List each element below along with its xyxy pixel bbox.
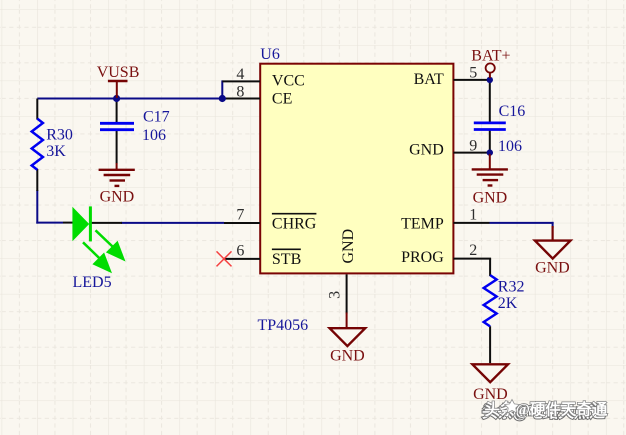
svg-text:TEMP: TEMP [401,216,444,233]
svg-text:BAT: BAT [414,71,444,88]
svg-text:3K: 3K [46,143,66,160]
svg-text:4: 4 [236,66,244,83]
svg-text:2: 2 [469,242,477,259]
svg-text:头条@硬件天奇通: 头条@硬件天奇通 [485,400,608,419]
svg-text:GND: GND [100,188,135,205]
svg-text:8: 8 [236,83,244,100]
svg-text:GND: GND [473,189,508,206]
svg-text:R30: R30 [46,126,73,143]
svg-text:5: 5 [469,65,477,82]
svg-text:C16: C16 [499,103,526,120]
svg-text:C17: C17 [143,109,170,126]
svg-text:GND: GND [473,386,508,403]
svg-text:VCC: VCC [272,72,305,89]
svg-text:106: 106 [142,127,166,144]
svg-text:7: 7 [236,207,244,224]
svg-text:CE: CE [272,90,292,107]
svg-text:106: 106 [498,138,522,155]
svg-text:1: 1 [469,207,477,224]
svg-text:CHRG: CHRG [272,216,317,233]
svg-text:TP4056: TP4056 [258,317,309,334]
svg-text:BAT+: BAT+ [471,47,510,64]
svg-text:STB: STB [272,251,301,268]
svg-text:2K: 2K [498,295,518,312]
svg-text:GND: GND [535,260,570,277]
svg-text:LED5: LED5 [73,274,112,291]
svg-text:U6: U6 [260,46,280,63]
svg-text:R32: R32 [498,279,525,296]
svg-text:GND: GND [340,229,357,264]
svg-text:VUSB: VUSB [97,64,140,81]
svg-text:6: 6 [236,242,244,259]
svg-text:GND: GND [409,142,444,159]
svg-text:3: 3 [327,291,344,299]
svg-text:PROG: PROG [401,249,444,266]
svg-text:GND: GND [330,348,365,365]
svg-text:9: 9 [469,137,477,154]
